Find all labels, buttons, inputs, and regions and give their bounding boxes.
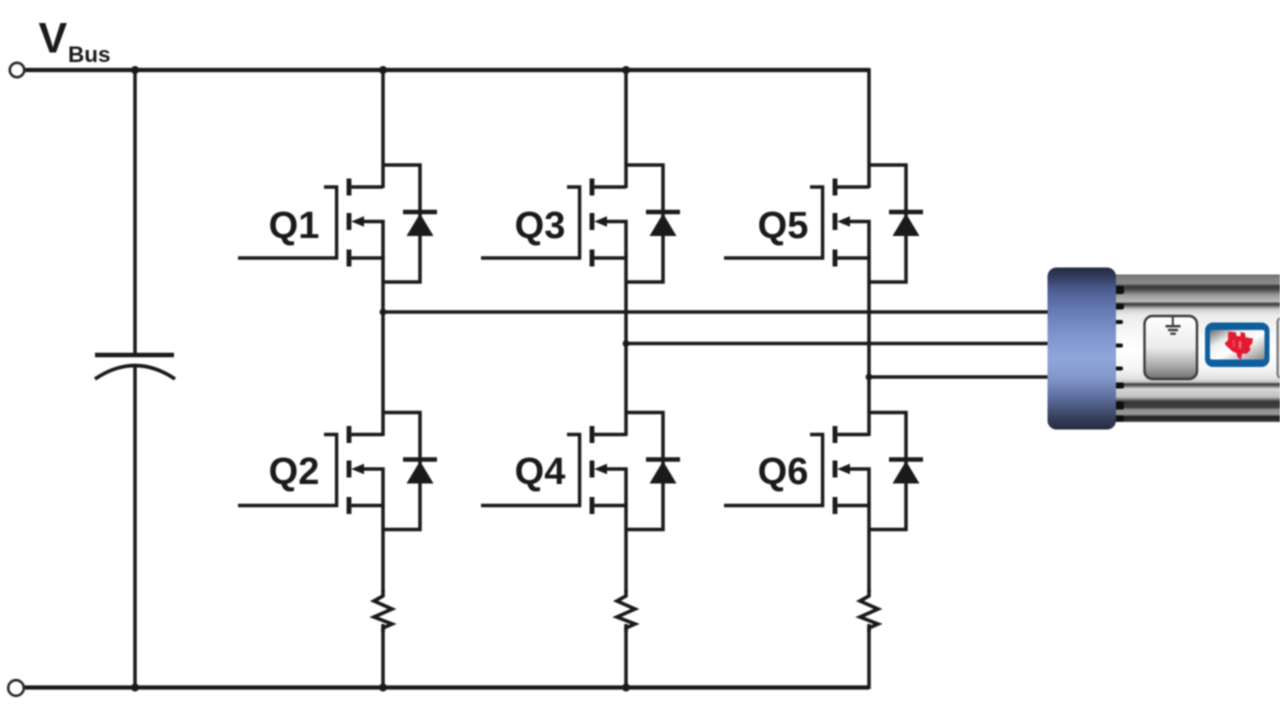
- svg-text:Q3: Q3: [515, 205, 566, 247]
- svg-text:Q2: Q2: [269, 451, 320, 493]
- svg-text:Q4: Q4: [515, 451, 566, 493]
- svg-text:Q6: Q6: [758, 451, 809, 493]
- svg-text:Bus: Bus: [68, 42, 111, 67]
- svg-text:Q5: Q5: [758, 205, 809, 247]
- svg-text:Q1: Q1: [269, 205, 320, 247]
- svg-text:V: V: [39, 15, 68, 63]
